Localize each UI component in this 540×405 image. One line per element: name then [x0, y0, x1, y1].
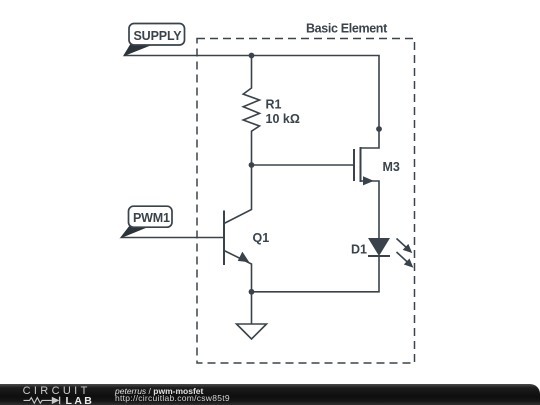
svg-text:10 kΩ: 10 kΩ [266, 112, 300, 126]
svg-text:Basic Element: Basic Element [306, 22, 388, 36]
svg-text:LAB: LAB [66, 395, 95, 405]
svg-text:M3: M3 [383, 160, 400, 174]
svg-text:D1: D1 [351, 243, 367, 257]
svg-text:PWM1: PWM1 [133, 211, 170, 225]
svg-text:R1: R1 [266, 98, 282, 112]
svg-text:Q1: Q1 [253, 231, 270, 245]
svg-text:SUPPLY: SUPPLY [134, 29, 183, 43]
